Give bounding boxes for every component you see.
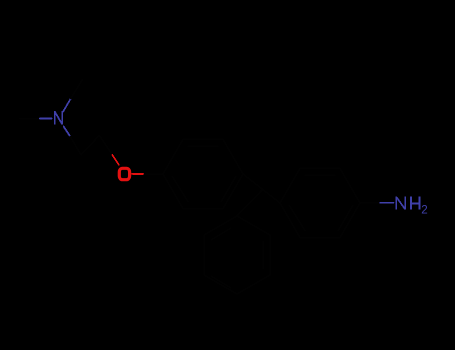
- bond O-ringA red half: [132, 173, 144, 175]
- bond CH2-O red half: [112, 155, 119, 165]
- atom O label (ring glyph): [119, 168, 129, 179]
- bond N-CH2 dark half: [70, 136, 81, 155]
- bond N-CH2 blue half: [64, 127, 71, 137]
- bond N-CH3 up dark half: [71, 80, 83, 99]
- atom NH2 label: H glyph: [410, 196, 412, 209]
- bond ringB-NH2 dark half: [360, 202, 380, 204]
- bond ringB-NH2 blue half: [380, 202, 393, 204]
- bond C1-ringC link: [237, 190, 262, 216]
- bond CH2-O dark half: [99, 135, 112, 155]
- ring C phenyl: [204, 216, 270, 294]
- bond ringA-C1 connector: [243, 174, 280, 203]
- ring B benzene: [280, 168, 360, 237]
- ring A benzene: [163, 139, 243, 208]
- bond CH3-N dark half: [20, 118, 40, 120]
- bond N-CH3 up blue half: [63, 99, 70, 112]
- atom N label (glyph strokes): [55, 111, 62, 125]
- bond O-ringA dark half: [144, 173, 163, 175]
- svg-text:2: 2: [421, 204, 427, 217]
- atom NH2 label: N glyph: [396, 196, 419, 209]
- bond CH3-N blue half: [40, 118, 52, 120]
- bond CH2-CH2: [81, 135, 99, 155]
